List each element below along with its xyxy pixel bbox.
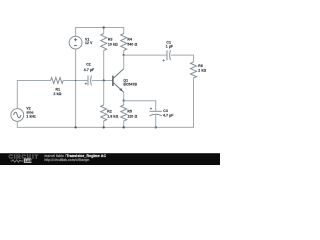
svg-text:120 Ω: 120 Ω [127,115,137,119]
wire C2 to base [92,80,113,82]
wire crossing V1 column [75,80,77,82]
wire R4 to collector node [123,51,125,56]
svg-text:1 µF: 1 µF [166,45,173,49]
watermark bar [0,153,220,165]
svg-text:1.8 kΩ: 1.8 kΩ [107,115,118,119]
svg-text:R3: R3 [108,38,113,42]
resistor R1 [51,78,64,84]
svg-text:LAB: LAB [25,159,33,163]
svg-text:C2: C2 [86,63,91,67]
node base junction [103,79,105,81]
resistor R2 [101,105,107,121]
svg-text:10 kΩ: 10 kΩ [108,42,118,46]
wire collector lead [123,55,125,69]
wire R3 bottom lead to base node [103,51,105,81]
wire R5 bottom lead [123,121,125,127]
svg-text:4.7 µF: 4.7 µF [163,114,173,118]
wire R2 bottom lead [103,121,105,127]
wire emitter lead [123,92,125,100]
wire ground rail [17,121,155,127]
wire emitter node to C3 [124,101,156,111]
svg-text:R1: R1 [56,87,61,91]
wire top rail VCC [76,28,124,37]
svg-text:2 kΩ: 2 kΩ [198,69,206,73]
node emitter junction [123,100,125,102]
node V1 ground junction [74,126,76,128]
svg-text:12 V: 12 V [85,41,93,45]
svg-text:BC547B: BC547B [123,83,137,87]
svg-text:4.7 µF: 4.7 µF [84,68,94,72]
wire base node to R2 [103,81,105,106]
svg-text:1 kHz: 1 kHz [26,114,36,118]
resistor R5 [121,105,127,121]
wire C3 bottom lead [155,114,157,127]
wire V1 negative column [75,49,77,127]
svg-text:2 kΩ: 2 kΩ [54,92,62,96]
resistor R3 [101,34,107,51]
wire R3 top lead [103,28,105,34]
svg-text:http://circuitlab.com/c/6kanpn: http://circuitlab.com/c/6kanpn [45,158,90,162]
node R2 ground junction [103,126,105,128]
svg-text:R5: R5 [127,110,132,114]
svg-text:540 Ω: 540 Ω [127,42,137,46]
voltage source V2 sine [11,109,24,122]
capacitor C3 [150,110,162,112]
svg-text:R6: R6 [198,64,203,68]
resistor R6 [191,62,197,78]
capacitor C2 [87,76,89,86]
svg-text:C3: C3 [163,109,168,113]
node R5 ground junction [123,126,125,128]
capacitor C1 [166,50,168,60]
logo resistor zigzag [11,160,23,163]
logo LAB box [24,159,32,163]
wire R6 bottom to ground rail [156,78,194,127]
transistor Q1 BC547B [112,76,114,86]
wire C1 to R6 [171,55,194,62]
resistor R4 [121,34,127,51]
svg-text:R4: R4 [127,38,132,42]
voltage source V1 [69,36,82,49]
node collector junction [123,54,125,56]
wire collector to C1 [124,54,167,56]
node VCC-R3 junction [103,26,105,28]
wire R1 to C2 [63,80,87,82]
svg-text:R2: R2 [107,110,112,114]
wire V2 top to R1 [17,81,50,109]
wire emitter to R5 [123,101,125,105]
